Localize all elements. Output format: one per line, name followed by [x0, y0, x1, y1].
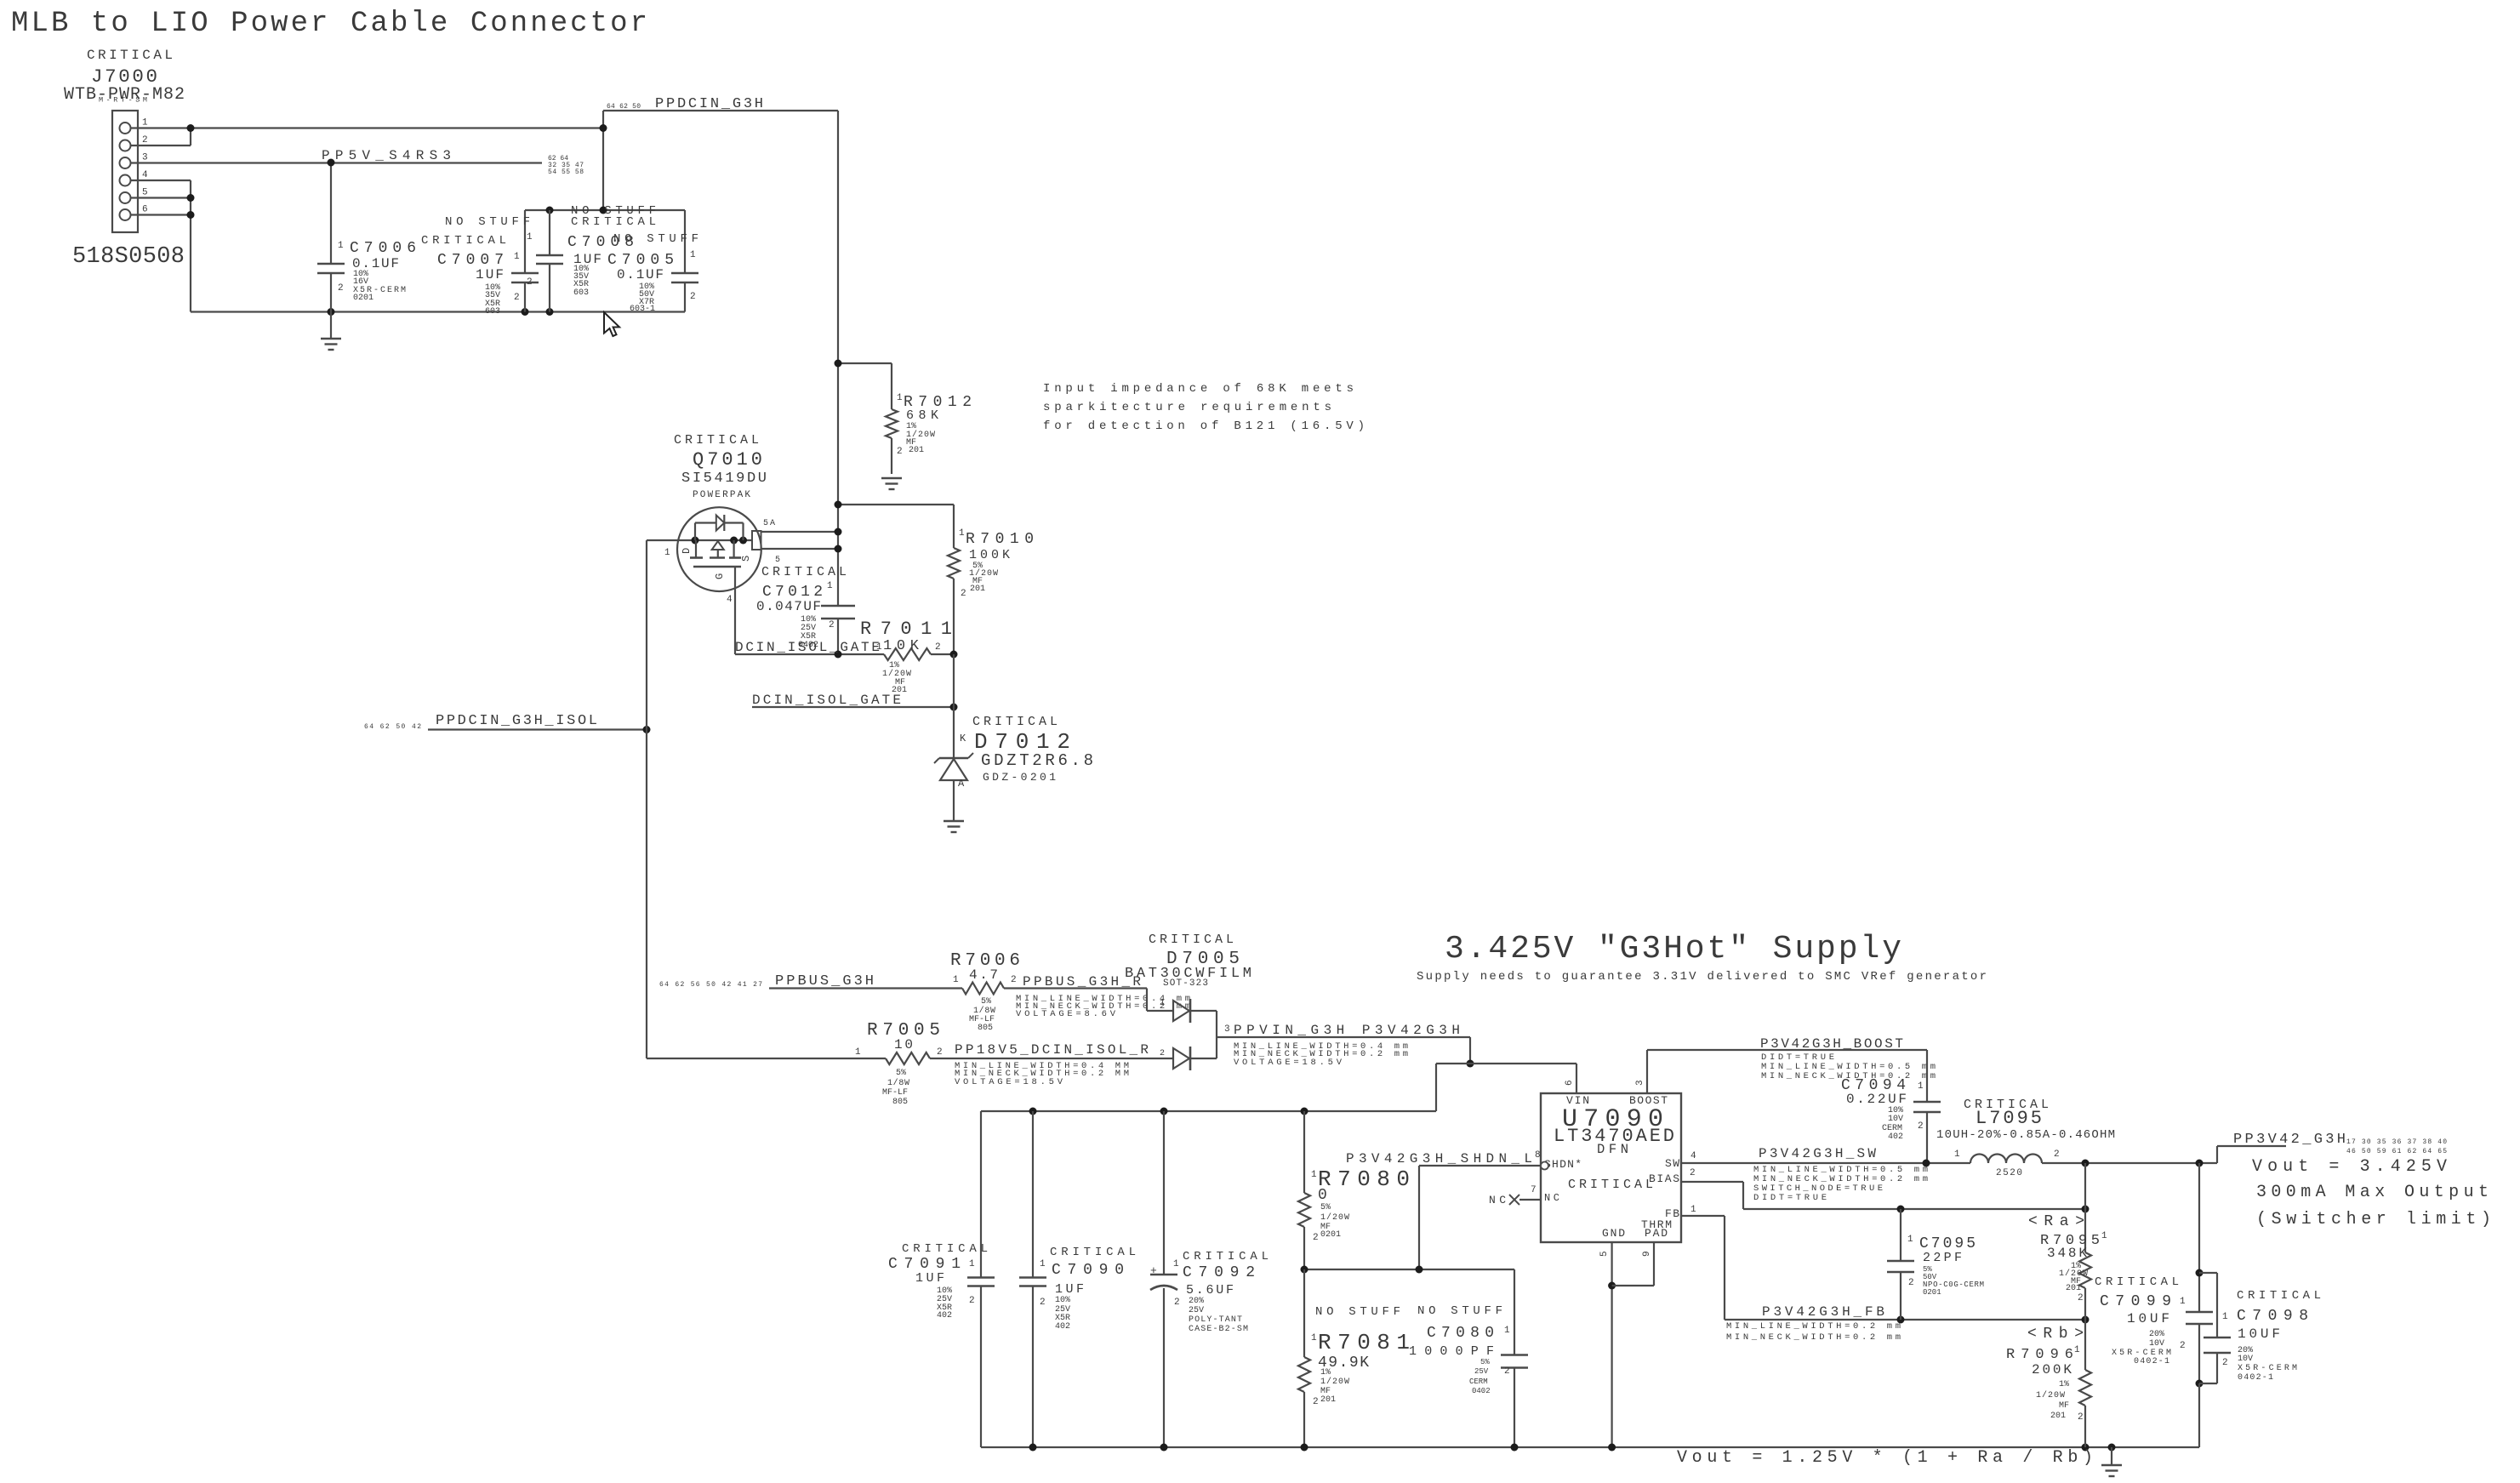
capacitor C7080 [1514, 1269, 1515, 1355]
svg-text:1: 1 [664, 548, 670, 558]
svg-text:0201: 0201 [1923, 1288, 1941, 1297]
svg-text:MIN_NECK_WIDTH=0.2 mm: MIN_NECK_WIDTH=0.2 mm [1726, 1332, 1901, 1343]
svg-text:SHDN*: SHDN* [1544, 1158, 1582, 1171]
resistor R7096 [2084, 1320, 2086, 1370]
svg-text:1: 1 [142, 118, 148, 128]
svg-text:6: 6 [142, 205, 148, 215]
svg-text:1: 1 [1907, 1235, 1913, 1245]
svg-text:2: 2 [969, 1296, 975, 1306]
svg-text:2: 2 [1313, 1397, 1319, 1407]
svg-text:2: 2 [937, 1047, 943, 1058]
svg-text:POLY-TANT: POLY-TANT [1189, 1315, 1242, 1325]
svg-text:1: 1 [953, 975, 959, 985]
ground rail [191, 311, 685, 312]
net PP18V5_DCIN_ISOL_R [930, 1058, 1173, 1059]
ground [881, 477, 902, 479]
svg-text:PPDCIN_G3H_ISOL: PPDCIN_G3H_ISOL [436, 713, 597, 729]
svg-text:0402: 0402 [1472, 1387, 1491, 1395]
svg-text:402: 402 [1055, 1322, 1070, 1332]
svg-text:2: 2 [2078, 1412, 2084, 1423]
svg-text:G: G [714, 573, 726, 579]
svg-text:20%: 20% [2149, 1330, 2164, 1339]
svg-text:1: 1 [855, 1047, 861, 1058]
svg-text:201: 201 [2066, 1284, 2081, 1293]
svg-text:2: 2 [338, 283, 344, 294]
svg-text:DFN: DFN [1597, 1142, 1628, 1157]
svg-text:1: 1 [2180, 1297, 2186, 1307]
capacitor C7098 [2199, 1272, 2217, 1274]
svg-text:5%: 5% [981, 997, 991, 1007]
ground [2111, 1447, 2112, 1464]
svg-text:805: 805 [892, 1098, 908, 1107]
svg-text:2: 2 [1908, 1278, 1914, 1288]
svg-text:1: 1 [1954, 1149, 1960, 1160]
svg-text:10V: 10V [1888, 1115, 1903, 1124]
svg-text:603: 603 [573, 288, 589, 298]
svg-text:1: 1 [514, 252, 520, 262]
svg-text:1/20W: 1/20W [2036, 1390, 2065, 1400]
svg-text:25V: 25V [1189, 1306, 1204, 1315]
wire Q7010 source pins [761, 531, 839, 533]
svg-text:4: 4 [142, 170, 148, 180]
svg-text:L7095: L7095 [1976, 1108, 2042, 1129]
svg-text:1: 1 [1173, 1259, 1179, 1269]
svg-text:7: 7 [1531, 1185, 1537, 1195]
svg-text:2: 2 [1690, 1168, 1696, 1178]
net PPDCIN_G3H [602, 111, 604, 210]
wire SW [1681, 1162, 1970, 1164]
svg-text:Q7010: Q7010 [693, 449, 762, 471]
svg-text:10UH-20%-0.85A-0.46OHM: 10UH-20%-0.85A-0.46OHM [1936, 1128, 2115, 1142]
no-stuff cap group box edges [525, 209, 685, 211]
svg-text:2: 2 [2054, 1149, 2060, 1160]
svg-text:BIAS: BIAS [1649, 1172, 1679, 1185]
svg-text:2: 2 [2078, 1293, 2084, 1303]
svg-text:1: 1 [1504, 1326, 1510, 1336]
svg-text:2: 2 [1313, 1233, 1319, 1243]
svg-text:402: 402 [937, 1311, 952, 1320]
svg-text:17 30 35 36 37 38 40: 17 30 35 36 37 38 40 [2346, 1138, 2447, 1146]
svg-text:1: 1 [2222, 1312, 2228, 1322]
svg-text:5: 5 [775, 556, 780, 565]
wire pin3 PP5V_S4RS3 [131, 162, 543, 163]
resistor R7081 [1303, 1269, 1305, 1357]
svg-text:2: 2 [2180, 1341, 2186, 1351]
svg-text:C7012: C7012 [762, 584, 823, 601]
capacitor C7095 [1900, 1209, 1901, 1261]
svg-text:2: 2 [1040, 1298, 1046, 1308]
resistor R7011 [884, 648, 931, 660]
capacitor C7099 [2198, 1163, 2200, 1312]
svg-text:1: 1 [1160, 999, 1165, 1008]
wire FB [1681, 1215, 1725, 1217]
svg-text:2: 2 [897, 447, 903, 457]
svg-text:+: + [1150, 1264, 1157, 1277]
svg-text:MF-LF: MF-LF [882, 1088, 908, 1098]
svg-text:0201: 0201 [1320, 1230, 1341, 1240]
svg-text:402: 402 [1888, 1132, 1903, 1142]
svg-text:20%: 20% [1189, 1297, 1204, 1306]
svg-text:10V: 10V [2149, 1339, 2164, 1349]
capacitor C7006 [330, 163, 332, 264]
wire DCIN_ISOL_GATE lower [752, 706, 954, 708]
svg-text:6: 6 [1565, 1080, 1575, 1086]
svg-text:1: 1 [338, 241, 344, 251]
svg-text:1UF: 1UF [915, 1271, 944, 1286]
wire BOOST [1646, 1050, 1648, 1093]
svg-text:2: 2 [935, 642, 941, 653]
svg-text:1: 1 [1040, 1259, 1046, 1269]
resistor R7005 [647, 1058, 886, 1059]
svg-text:10K: 10K [883, 638, 920, 654]
svg-text:2: 2 [829, 620, 835, 630]
svg-text:2: 2 [1160, 1049, 1165, 1058]
svg-text:1: 1 [959, 528, 965, 539]
svg-text:0402-1: 0402-1 [2134, 1357, 2169, 1366]
svg-text:3: 3 [1224, 1024, 1230, 1035]
svg-text:MIN_LINE_WIDTH=0.2 mm: MIN_LINE_WIDTH=0.2 mm [1726, 1321, 1901, 1332]
svg-text:2: 2 [527, 277, 533, 288]
svg-text:PPBUS_G3H: PPBUS_G3H [775, 973, 874, 990]
wire BIAS [1681, 1181, 1743, 1183]
svg-text:25V: 25V [1474, 1367, 1489, 1376]
svg-text:518S0508: 518S0508 [72, 244, 185, 270]
svg-text:4: 4 [727, 595, 733, 605]
svg-text:2: 2 [1918, 1121, 1924, 1132]
svg-text:5: 5 [1599, 1251, 1610, 1257]
svg-text:SOT-323: SOT-323 [1163, 978, 1208, 989]
svg-text:1/8W: 1/8W [887, 1078, 909, 1088]
net PPVIN_G3H P3V42G3H [1217, 1036, 1470, 1038]
resistor R7080 [1303, 1111, 1305, 1193]
ground [330, 312, 332, 339]
ground [944, 820, 964, 822]
capacitor C7094 [1926, 1050, 1928, 1102]
svg-text:5%: 5% [1480, 1358, 1490, 1366]
svg-text:POWERPAK: POWERPAK [693, 490, 750, 500]
wire pin1 [131, 127, 604, 128]
input rail [981, 1110, 1436, 1112]
svg-text:3: 3 [1635, 1080, 1645, 1086]
resistor R7006 [962, 983, 1004, 995]
wire to R7010 [838, 504, 954, 505]
svg-text:1UF: 1UF [476, 267, 504, 282]
svg-text:5.6UF: 5.6UF [1186, 1283, 1234, 1298]
svg-text:2: 2 [690, 292, 696, 302]
svg-text:GND: GND [1602, 1227, 1625, 1240]
svg-text:64 62 50 42: 64 62 50 42 [364, 723, 421, 731]
svg-text:5A: 5A [763, 519, 775, 528]
wire pins 4-6 [131, 180, 191, 181]
svg-text:C7095: C7095 [1919, 1235, 1976, 1252]
svg-text:1: 1 [2101, 1231, 2107, 1241]
svg-text:1: 1 [527, 232, 533, 242]
svg-text:S: S [740, 556, 752, 562]
svg-text:1: 1 [897, 393, 903, 403]
svg-text:4: 4 [1690, 1151, 1696, 1161]
wire PPDCIN vertical spine [837, 111, 839, 606]
svg-text:P3V42G3H_SHDN_L: P3V42G3H_SHDN_L [1346, 1151, 1532, 1166]
svg-text:9: 9 [1642, 1251, 1652, 1257]
svg-text:for detection of B121 (16.5V): for detection of B121 (16.5V) [1043, 419, 1365, 433]
svg-text:3.425V "G3Hot" Supply: 3.425V "G3Hot" Supply [1445, 931, 1901, 967]
svg-text:603-1: 603-1 [630, 305, 655, 314]
svg-text:0.047UF: 0.047UF [756, 599, 821, 614]
node R7080/R7081 [1304, 1269, 1514, 1270]
svg-text:201: 201 [970, 585, 985, 594]
svg-text:68K: 68K [906, 408, 938, 423]
svg-text:54 55 58: 54 55 58 [548, 168, 584, 176]
svg-text:1: 1 [827, 581, 833, 591]
svg-text:1UF: 1UF [1055, 1282, 1084, 1297]
svg-text:1%: 1% [2059, 1380, 2069, 1389]
capacitor C7091 [980, 1111, 982, 1278]
svg-text:P3V42G3H_FB: P3V42G3H_FB [1762, 1304, 1884, 1320]
svg-text:64 62 50: 64 62 50 [607, 103, 641, 111]
svg-text:1/20W: 1/20W [1320, 1377, 1349, 1387]
svg-text:DIDT=TRUE: DIDT=TRUE [1753, 1193, 1827, 1203]
IC U7090 [1541, 1093, 1681, 1242]
capacitor C7008 [549, 210, 550, 255]
mouse cursor [604, 312, 619, 336]
svg-text:0201: 0201 [353, 294, 373, 303]
ground rail bottom [981, 1446, 2199, 1448]
svg-text:1: 1 [2074, 1345, 2080, 1355]
net PPBUS_G3H_R [1004, 987, 1147, 989]
svg-text:10V: 10V [2238, 1355, 2253, 1364]
wire THRM PAD [1653, 1242, 1655, 1286]
svg-text:2: 2 [961, 589, 966, 599]
svg-text:MF: MF [2059, 1401, 2069, 1411]
svg-text:2: 2 [1011, 975, 1017, 985]
capacitor C7007 [524, 210, 526, 273]
svg-text:1: 1 [1690, 1205, 1696, 1215]
svg-text:2: 2 [514, 293, 520, 303]
svg-text:PPBUS_G3H_R: PPBUS_G3H_R [1023, 974, 1141, 990]
svg-text:46 50 59 61 62 64 65: 46 50 59 61 62 64 65 [2346, 1148, 2447, 1155]
svg-text:D: D [681, 548, 693, 554]
svg-text:5: 5 [142, 188, 148, 198]
svg-text:64 62 56 50 42 41 27: 64 62 56 50 42 41 27 [659, 981, 762, 989]
svg-text:2: 2 [1174, 1298, 1180, 1308]
svg-text:201: 201 [1320, 1395, 1336, 1405]
svg-text:CASE-B2-SM: CASE-B2-SM [1189, 1325, 1248, 1334]
capacitor C7005 [684, 210, 686, 273]
wire R7010/zener vertical [953, 654, 955, 757]
svg-text:201: 201 [2050, 1412, 2066, 1421]
wire GND pin [1611, 1242, 1612, 1447]
svg-text:1%: 1% [1320, 1368, 1331, 1377]
svg-text:1: 1 [1311, 1333, 1317, 1343]
svg-text:CERM: CERM [1469, 1377, 1488, 1386]
svg-text:2: 2 [142, 135, 148, 145]
svg-text:1: 1 [690, 250, 696, 260]
svg-text:2: 2 [1504, 1366, 1510, 1377]
resistor R7010 [948, 548, 960, 579]
svg-text:0: 0 [1318, 1187, 1327, 1204]
wire pin2 [131, 145, 191, 146]
svg-text:5%: 5% [896, 1069, 906, 1078]
svg-text:1: 1 [1918, 1081, 1924, 1092]
resistor R7012 [838, 362, 892, 364]
svg-text:K: K [960, 733, 966, 744]
svg-text:4.7: 4.7 [969, 967, 998, 983]
svg-text:805: 805 [978, 1024, 993, 1033]
resistor R7095 [2084, 1163, 2086, 1252]
svg-text:5%: 5% [1320, 1203, 1331, 1212]
svg-text:10%: 10% [1055, 1296, 1070, 1305]
svg-text:0402-1: 0402-1 [2238, 1373, 2273, 1383]
svg-text:3: 3 [142, 153, 148, 163]
svg-text:A: A [958, 778, 965, 790]
svg-text:1: 1 [1311, 1170, 1317, 1180]
svg-text:Supply needs to guarantee 3.31: Supply needs to guarantee 3.31V delivere… [1417, 970, 1987, 984]
svg-text:0.1UF: 0.1UF [617, 267, 664, 282]
svg-text:201: 201 [909, 446, 924, 455]
svg-text:GDZT2R6.8: GDZT2R6.8 [981, 751, 1093, 770]
svg-text:PAD: PAD [1645, 1227, 1668, 1240]
svg-text:P3V42G3H_SW: P3V42G3H_SW [1759, 1146, 1876, 1161]
svg-text:1: 1 [969, 1259, 975, 1269]
svg-text:8: 8 [1535, 1150, 1541, 1161]
svg-text:603: 603 [485, 307, 500, 317]
wire isol vertical [646, 540, 647, 1058]
svg-text:2520: 2520 [1996, 1168, 2022, 1178]
capacitor C7012 [821, 605, 855, 607]
svg-text:1: 1 [876, 642, 882, 653]
wire output P3V42 [2042, 1162, 2217, 1164]
svg-text:2: 2 [2222, 1358, 2228, 1368]
svg-text:1/20W: 1/20W [1320, 1212, 1349, 1223]
capacitor C7092 [1163, 1111, 1165, 1275]
svg-text:SW: SW [1665, 1157, 1679, 1170]
capacitor C7090 [1032, 1111, 1034, 1278]
wire VIN [1576, 1064, 1577, 1093]
wire DCIN_ISOL_GATE rail [735, 653, 884, 655]
